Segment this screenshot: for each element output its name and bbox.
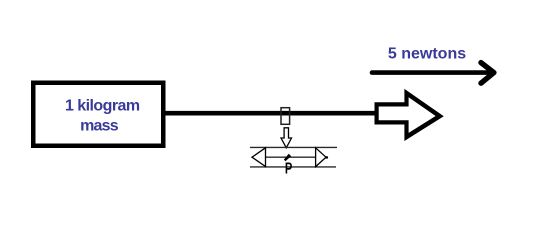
svg-text:5 newtons: 5 newtons [388,46,466,63]
svg-text:mass: mass [80,118,119,135]
block arrow (hollow right arrow) [375,89,444,141]
small square marker on rope [281,108,290,125]
svg-text:1 kilogram: 1 kilogram [65,97,140,114]
double-arrow shaft [266,156,316,158]
force vector arrowhead [481,63,494,84]
top guide line of P scale [250,146,337,148]
hollow down arrow pointer [281,128,292,148]
tick mark above P [284,154,291,161]
right hollow arrowhead [316,148,326,167]
left hollow arrowhead [252,148,266,167]
wire: horizontal rope from box to force arrow [164,111,377,116]
svg-text:P: P [285,161,292,178]
force vector arrow shaft (5 newtons) [372,70,489,75]
dot at right arrowhead tip [326,156,329,159]
mass box M1 [33,83,163,146]
bottom guide line of P scale [250,166,336,168]
